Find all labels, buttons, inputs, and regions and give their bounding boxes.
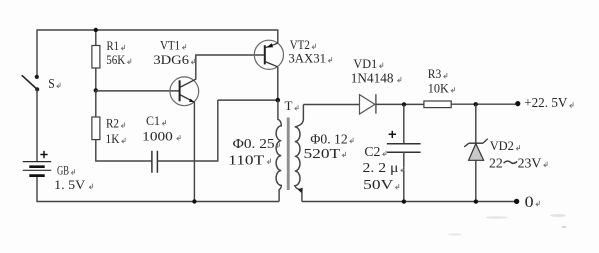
label phi 0.25 bbox=[233, 137, 280, 152]
svg-text:1K: 1K bbox=[106, 131, 121, 146]
wire base of VT1 bbox=[96, 90, 180, 92]
svg-text:520T: 520T bbox=[304, 147, 341, 162]
wire battery to bottom rail bbox=[36, 177, 38, 202]
svg-text:1. 5V: 1. 5V bbox=[54, 177, 86, 192]
label 1.5V bbox=[54, 177, 92, 192]
svg-text:C2: C2 bbox=[364, 144, 380, 159]
resistor R2 bbox=[92, 117, 100, 140]
wire switch to battery bbox=[36, 89, 38, 161]
wire R1 branch top bbox=[95, 30, 97, 46]
node top rail / R1 junction bbox=[94, 28, 98, 32]
label R3 bbox=[428, 66, 447, 81]
C2 plus sign bbox=[389, 131, 396, 138]
label 10K bbox=[428, 80, 455, 95]
scan smudge marks bbox=[448, 214, 567, 235]
svg-text:Φ0. 25: Φ0. 25 bbox=[233, 137, 275, 152]
wire VD2 branch top bbox=[475, 104, 477, 143]
label 1K bbox=[106, 131, 126, 146]
terminal 0V dot bbox=[514, 199, 519, 204]
svg-text:2. 2 μ: 2. 2 μ bbox=[363, 160, 399, 175]
wire left vertical from top rail to switch bbox=[36, 29, 38, 75]
node VT1 emitter / bottom rail bbox=[192, 199, 196, 203]
wire top rail bbox=[37, 29, 278, 31]
secondary winding end arrow bbox=[298, 188, 303, 193]
wire secondary top to VD1 bbox=[303, 104, 359, 106]
svg-text:R3: R3 bbox=[428, 66, 442, 81]
label 3AX31 bbox=[288, 50, 331, 65]
svg-text:VT1: VT1 bbox=[160, 37, 180, 52]
label 3DG6 bbox=[153, 52, 194, 67]
capacitor C1 bbox=[152, 151, 158, 173]
wire R3 to +22.5V terminal bbox=[451, 103, 517, 105]
transistor VT1 bbox=[170, 77, 199, 106]
label +22.5V bbox=[524, 96, 573, 111]
svg-text:Φ0. 12: Φ0. 12 bbox=[310, 132, 347, 147]
svg-text:0: 0 bbox=[525, 194, 534, 211]
svg-text:3AX31: 3AX31 bbox=[288, 50, 326, 65]
wire C1 right to feedback node bbox=[157, 100, 277, 162]
diode VD1 bbox=[360, 94, 376, 114]
capacitor C2 bbox=[387, 104, 421, 201]
wire node to R2 top bbox=[95, 90, 97, 117]
label T bbox=[285, 98, 299, 113]
svg-text:50V: 50V bbox=[363, 178, 393, 193]
battery plus sign bbox=[40, 151, 47, 158]
node C2 bottom junction bbox=[402, 199, 406, 203]
transformer core bbox=[287, 118, 290, 191]
label R2 bbox=[106, 116, 125, 131]
transistor VT2 bbox=[254, 40, 283, 69]
label VD1 bbox=[353, 56, 382, 71]
label S bbox=[48, 76, 60, 91]
label 50V bbox=[363, 178, 399, 193]
node VD2 bottom junction bbox=[474, 199, 478, 203]
svg-text:T: T bbox=[285, 98, 293, 113]
label 110T bbox=[228, 154, 270, 169]
label R1 bbox=[107, 38, 125, 53]
label VT1 bbox=[160, 37, 186, 52]
label 1N4148 bbox=[351, 70, 401, 85]
wire R2 bottom to C1 bbox=[96, 140, 152, 161]
svg-text:23V: 23V bbox=[518, 157, 542, 172]
label GB bbox=[57, 163, 75, 178]
label 2.2u bbox=[363, 160, 405, 175]
resistor R3 bbox=[424, 101, 451, 108]
wire VT2 collector down to node bbox=[277, 67, 279, 100]
label 0 bbox=[525, 194, 540, 211]
svg-text:1N4148: 1N4148 bbox=[351, 70, 394, 85]
terminal +22.5V dot bbox=[515, 101, 520, 106]
label C1 bbox=[146, 113, 166, 128]
node collector / feedback / primary junction bbox=[276, 98, 281, 103]
node VD2 top junction bbox=[474, 102, 478, 106]
label C2 bbox=[364, 144, 386, 159]
svg-text:VD1: VD1 bbox=[353, 56, 377, 71]
svg-text:GB: GB bbox=[57, 163, 69, 178]
label 22~23V bbox=[489, 157, 547, 172]
wire R1 bottom to node bbox=[95, 68, 97, 90]
switch S bbox=[22, 75, 40, 92]
label 1000 bbox=[142, 128, 180, 143]
node C2 top junction bbox=[402, 102, 406, 106]
svg-text:56K: 56K bbox=[106, 52, 126, 67]
label VD2 bbox=[490, 138, 520, 153]
wire VD1 cathode to R3 bbox=[376, 103, 424, 105]
svg-text:+22. 5V: +22. 5V bbox=[524, 96, 567, 111]
node R1/R2/base junction bbox=[94, 88, 98, 92]
wire VT1 emitter to bottom rail bbox=[193, 102, 195, 202]
label 520T bbox=[304, 147, 346, 162]
svg-text:1000: 1000 bbox=[142, 128, 173, 143]
svg-text:110T: 110T bbox=[228, 154, 265, 169]
resistor R1 bbox=[92, 46, 100, 69]
svg-text:10K: 10K bbox=[428, 80, 450, 95]
wire bottom rail right bbox=[302, 201, 518, 203]
svg-text:3DG6: 3DG6 bbox=[153, 52, 189, 67]
svg-text:S: S bbox=[48, 76, 55, 91]
wire VD2 bottom to rail bbox=[475, 160, 477, 201]
label phi 0.12 bbox=[310, 132, 353, 147]
label VT2 bbox=[290, 37, 316, 52]
svg-text:VD2: VD2 bbox=[490, 138, 514, 153]
svg-text:R2: R2 bbox=[106, 116, 119, 131]
wire bottom rail left bbox=[36, 201, 279, 203]
transformer T primary winding bbox=[276, 100, 281, 201]
svg-text:C1: C1 bbox=[146, 113, 160, 128]
label 56K bbox=[106, 52, 131, 67]
zener diode VD2 bbox=[464, 139, 488, 161]
svg-text:22: 22 bbox=[489, 157, 503, 172]
transformer T secondary winding bbox=[295, 105, 304, 202]
wire VT1 collector riser to VT2 base bbox=[196, 55, 265, 80]
wire top rail to VT2 emitter bbox=[277, 29, 279, 43]
battery GB bbox=[23, 162, 52, 176]
